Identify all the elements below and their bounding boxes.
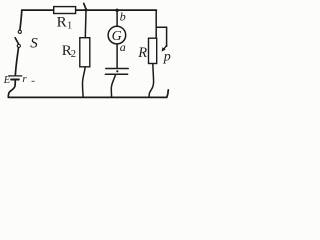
galvanometer G circle bbox=[108, 26, 126, 44]
slider arrowhead bbox=[162, 47, 166, 51]
switch S terminal bottom bbox=[17, 44, 20, 47]
svg-text:R: R bbox=[57, 14, 67, 30]
battery short plate bbox=[11, 79, 19, 81]
switch S blade bbox=[15, 38, 19, 45]
svg-text:R: R bbox=[137, 45, 147, 61]
wire bottom rail bbox=[8, 90, 168, 98]
svg-text:b: b bbox=[120, 10, 126, 24]
wire slider arm horizontal bbox=[156, 26, 166, 28]
capacitor dot bbox=[116, 70, 118, 72]
wire top-left segment bbox=[22, 9, 54, 11]
capacitor upper plate bbox=[106, 68, 128, 70]
wire R2 branch bottom bbox=[83, 67, 86, 97]
wire slider arm vertical bbox=[166, 27, 168, 46]
wire switch to battery bbox=[15, 48, 18, 75]
rheostat R box bbox=[149, 38, 157, 63]
svg-text:2: 2 bbox=[71, 49, 76, 60]
wire G branch to capacitor bbox=[116, 44, 118, 68]
wire top-middle segment bbox=[76, 9, 157, 11]
wire R2 branch top bbox=[84, 10, 87, 38]
resistor R2 box bbox=[80, 38, 90, 67]
svg-text:E: E bbox=[3, 75, 11, 86]
wire R branch bottom bbox=[149, 64, 154, 98]
svg-text:S: S bbox=[30, 36, 38, 52]
svg-text:p: p bbox=[163, 49, 171, 64]
capacitor lower plate bbox=[105, 73, 127, 75]
wire right branch top bbox=[155, 10, 157, 38]
switch S terminal top bbox=[18, 30, 21, 33]
junction dot at G branch bbox=[115, 9, 118, 12]
resistor R1 box bbox=[54, 7, 76, 14]
svg-text:1: 1 bbox=[67, 21, 72, 32]
wire capacitor to bottom rail bbox=[111, 74, 115, 97]
svg-text:r: r bbox=[22, 73, 27, 85]
speckle bbox=[32, 81, 35, 82]
wire left drop to switch bbox=[20, 10, 22, 30]
slider arrow shaft bbox=[164, 46, 167, 49]
svg-text:a: a bbox=[120, 40, 126, 54]
wire G branch top bbox=[116, 10, 118, 26]
wire battery to bottom-left corner bbox=[8, 81, 15, 97]
junction tick at R2 branch bbox=[84, 3, 87, 9]
junction dot at R2 branch bbox=[85, 8, 88, 11]
battery long plate bbox=[9, 75, 22, 77]
